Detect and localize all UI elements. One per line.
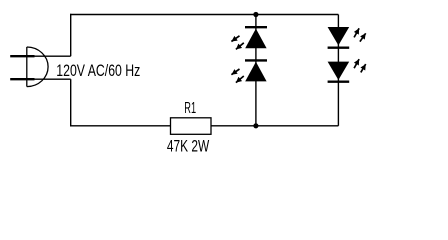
plug P1 bottom prong (10, 78, 34, 80)
wire plug top lead (27, 55, 71, 57)
junction top node (253, 12, 258, 17)
wire plug bottom lead (27, 78, 71, 80)
LED D1 (231, 27, 267, 49)
wire left vertical upper (70, 14, 72, 56)
LED D4 (328, 59, 366, 82)
resistor R1 (171, 118, 212, 135)
wire left vertical lower (70, 79, 72, 126)
plug P1 top prong (10, 55, 34, 57)
wire middle column (255, 15, 257, 126)
wire bottom rail (70, 125, 338, 127)
LED D2 (231, 60, 267, 82)
wire top rail (70, 14, 338, 16)
svg-text:R1: R1 (184, 100, 196, 117)
plug P1 body (27, 47, 48, 87)
LED D3 (328, 27, 366, 48)
wire right column (337, 15, 339, 126)
svg-text:47K 2W: 47K 2W (167, 137, 210, 156)
svg-text:120V AC/60 Hz: 120V AC/60 Hz (56, 61, 140, 80)
junction bottom node (253, 123, 258, 128)
